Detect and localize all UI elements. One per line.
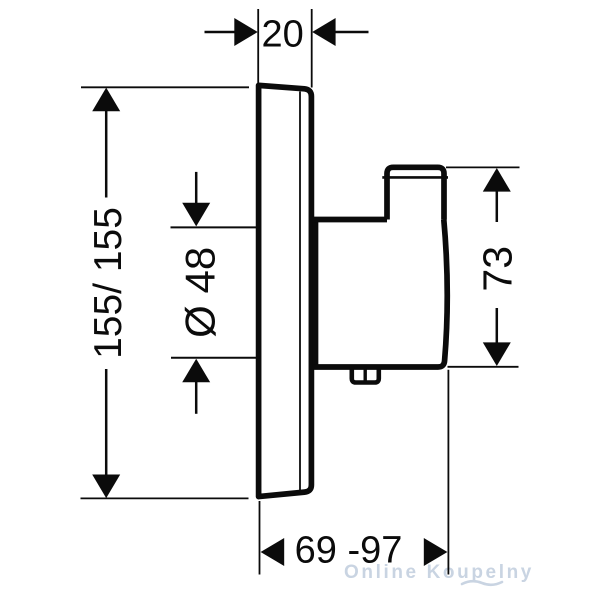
dim O48: extension lines bbox=[171, 226, 257, 228]
svg-text:Ø 48: Ø 48 bbox=[176, 247, 223, 338]
watermark OnlineKoupelny bbox=[344, 562, 534, 585]
dim 20: left leader + arrow bbox=[205, 31, 236, 34]
dim 155/155: extension lines bbox=[81, 86, 249, 88]
dim 73: extension lines bbox=[446, 166, 520, 168]
svg-text:73: 73 bbox=[475, 246, 521, 292]
plate inner front-face line bbox=[299, 92, 301, 491]
dim 20: right leader + arrow bbox=[336, 31, 369, 34]
dim 155/155: bottom arrow bbox=[92, 475, 120, 499]
dim 20: extension lines bbox=[257, 9, 259, 84]
body top edge bbox=[312, 217, 388, 223]
knob cap line bbox=[382, 176, 448, 179]
knob (handle) bbox=[387, 167, 444, 219]
svg-text:155/ 155: 155/ 155 bbox=[87, 207, 130, 359]
dim O48: bottom arrow (outside, pointing up) bbox=[195, 382, 198, 414]
dim O48: top arrow (outside, pointing down) bbox=[195, 172, 198, 204]
body left edge bbox=[313, 220, 319, 368]
svg-text:69 -97: 69 -97 bbox=[295, 530, 403, 572]
notch divider bbox=[364, 368, 367, 382]
svg-text:20: 20 bbox=[262, 14, 304, 56]
dim 155/155: top arrow bbox=[92, 88, 120, 112]
dim 69-97: left arrow bbox=[261, 538, 285, 566]
body right edge (curved) and bottom edge bbox=[313, 220, 447, 368]
plate (escutcheon) outline bbox=[259, 85, 312, 496]
dim 69-97: right arrow bbox=[424, 538, 448, 566]
safety-stop notch under body bbox=[352, 367, 379, 383]
dim 69-97: extension lines bbox=[259, 501, 261, 575]
dim 73: top arrow bbox=[483, 168, 511, 192]
dim 73: bottom arrow bbox=[483, 342, 511, 366]
